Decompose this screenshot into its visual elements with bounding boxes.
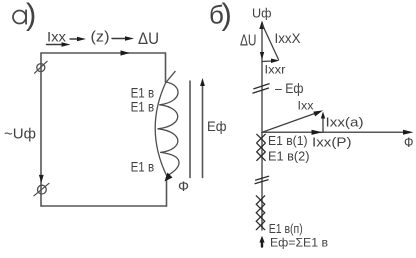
axis break lower slash 2 [255, 180, 268, 184]
svg-text:Ф: Ф [178, 178, 189, 194]
svg-text:): ) [222, 0, 232, 32]
arrow Ixx to (z) [70, 38, 79, 40]
vector IxxX diagonal [263, 25, 279, 60]
axis break upper slash 2 [253, 88, 269, 93]
axis F horizontal [262, 131, 405, 133]
svg-text:E1 в(п): E1 в(п) [269, 221, 303, 236]
svg-text:Uф: Uф [252, 6, 272, 21]
coil L1 top lead [166, 71, 175, 82]
cross mark 7 [256, 221, 264, 229]
arrowhead Ixxr [271, 59, 280, 64]
svg-text:Ixx: Ixx [47, 30, 66, 45]
svg-text:Eф: Eф [207, 118, 227, 134]
cross mark 6 [256, 213, 264, 221]
svg-text:ΔU: ΔU [240, 33, 257, 50]
vector Ixx [262, 113, 316, 132]
Ef arrowhead up [200, 78, 205, 86]
svg-text:(z): (z) [91, 29, 110, 46]
arrowhead Ixx [313, 110, 323, 116]
wire left side [40, 53, 42, 206]
arrowhead on top wire [121, 50, 131, 55]
coil L1 turn 1 [160, 82, 178, 105]
axis Uf vertical [261, 23, 263, 230]
arrowhead dU down on axis [260, 52, 264, 60]
arrow (z) to dU [112, 38, 126, 40]
cross mark 3 [257, 152, 265, 160]
svg-text:Ixx(a): Ixx(a) [326, 114, 364, 129]
svg-text:Ixx(P): Ixx(P) [312, 134, 352, 149]
wire top of loop [41, 52, 166, 54]
slash on top terminal [35, 61, 48, 73]
svg-text:E1 в: E1 в [131, 98, 155, 114]
arrowhead Ixx(P) on axis [312, 130, 323, 135]
slash on bottom terminal [34, 183, 49, 196]
axis break lower slash 1 [256, 176, 269, 180]
cross mark 1 [257, 134, 265, 142]
coil L1 turn 4 [161, 152, 179, 176]
axis Uf arrowhead [259, 21, 265, 30]
svg-text:Eф=ΣE1 в: Eф=ΣE1 в [270, 236, 328, 250]
coil L1 turn 2 [158, 105, 178, 129]
svg-text:Ixxr: Ixxr [265, 63, 286, 77]
wire right upper [165, 53, 167, 82]
cross mark 2 [257, 143, 265, 151]
svg-text:E1 в: E1 в [131, 159, 155, 175]
svg-text:Ф: Ф [404, 134, 414, 150]
vector Ixxr horizontal [262, 60, 272, 63]
svg-text:– Eф: – Eф [275, 80, 304, 96]
Ef arrow line [202, 85, 204, 178]
coil L1 turn 3 [158, 129, 178, 153]
terminal circle top [37, 64, 45, 72]
arrowhead down on left wire [39, 175, 44, 183]
label a) [13, 11, 26, 24]
svg-text:~Uф: ~Uф [4, 126, 36, 143]
sum arrow Ef [261, 241, 263, 247]
vector Ixx(a) vertical [322, 117, 324, 132]
vector bar under Ixx [47, 44, 64, 46]
terminal circle bottom [38, 185, 47, 194]
arrowhead Ixx(a) [321, 112, 325, 119]
cross mark 4 [256, 196, 264, 204]
svg-text:IxxX: IxxX [275, 31, 301, 46]
axis F arrowhead [403, 130, 414, 135]
svg-text:E1 в(1): E1 в(1) [268, 133, 308, 148]
coil arrowhead flux direction [165, 173, 173, 182]
axis break upper slash 1 [254, 84, 269, 89]
svg-text:E1 в(2): E1 в(2) [268, 148, 310, 163]
svg-text:ΔU: ΔU [138, 29, 159, 48]
cross mark 5 [256, 204, 264, 212]
coil L1 spine arc [155, 82, 167, 176]
wire right lower [166, 178, 168, 207]
svg-text:Ixx: Ixx [298, 99, 314, 113]
svg-text:): ) [26, 0, 36, 32]
core line left [189, 81, 191, 178]
wire bottom [41, 205, 167, 207]
